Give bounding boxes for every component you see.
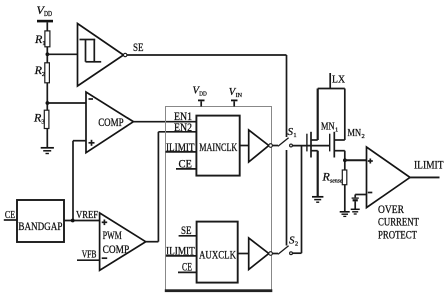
svg-text:VFB: VFB (82, 250, 97, 261)
svg-text:COMP: COMP (103, 244, 130, 256)
svg-text:COMP: COMP (98, 115, 124, 129)
svg-text:VREF: VREF (76, 210, 98, 221)
svg-text:AUXCLK: AUXCLK (199, 248, 236, 262)
svg-text:1: 1 (335, 127, 338, 134)
svg-text:sense: sense (330, 178, 343, 185)
svg-text:DD: DD (199, 91, 207, 98)
svg-text:OVER: OVER (378, 202, 404, 216)
svg-text:PROTECT: PROTECT (378, 228, 417, 242)
svg-text:PWM: PWM (103, 230, 122, 242)
svg-text:LX: LX (332, 74, 345, 86)
svg-text:3: 3 (41, 119, 44, 126)
svg-text:MAINCLK: MAINCLK (199, 140, 237, 154)
svg-text:1: 1 (293, 132, 296, 139)
svg-text:1: 1 (42, 40, 45, 47)
svg-text:SE: SE (133, 40, 144, 54)
svg-text:MN: MN (348, 128, 362, 139)
svg-text:2: 2 (42, 71, 45, 78)
svg-text:CURRENT: CURRENT (378, 215, 419, 229)
svg-text:2: 2 (295, 241, 298, 248)
svg-text:DD: DD (44, 10, 52, 18)
svg-text:ILIMIT: ILIMIT (414, 157, 444, 171)
svg-text:2: 2 (362, 133, 365, 140)
svg-text:MN: MN (321, 122, 335, 133)
svg-text:BANDGAP: BANDGAP (18, 219, 62, 233)
svg-text:IN: IN (236, 92, 243, 99)
svg-text:EN2: EN2 (174, 122, 192, 134)
